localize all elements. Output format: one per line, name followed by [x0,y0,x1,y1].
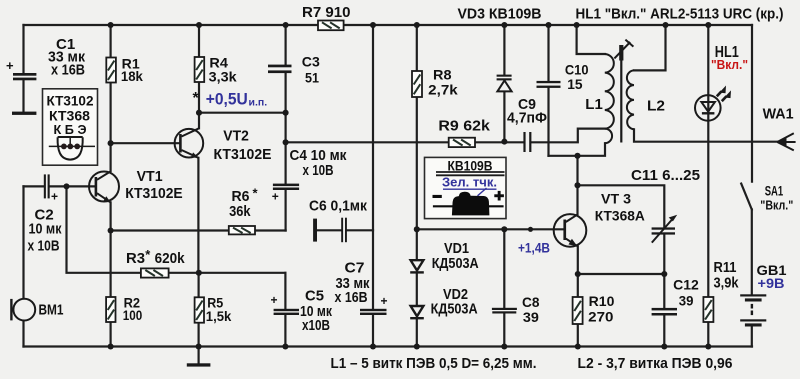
node VT2 base riser [108,140,114,146]
label R4 value [209,55,237,85]
svg-text:VT 3: VT 3 [601,191,631,207]
wire bottom rail [24,345,753,347]
svg-text:L1 – 5 витк ПЭВ 0,5 D= 6,25 м: L1 – 5 витк ПЭВ 0,5 D= 6,25 мм. [331,355,537,372]
wire C5 branch [284,273,286,347]
resistor R6 [229,226,255,234]
wire VT1 emitter / R2 riser [109,202,111,346]
core of transformer [620,48,622,143]
label pinout box text [47,93,94,138]
svg-text:1,5k: 1,5k [206,308,232,324]
trimmer capacitor C11 [652,215,678,243]
svg-text:R3: R3 [126,251,145,267]
wire C3 C4 chain [285,25,287,231]
transistor VT3 [554,214,587,247]
label VT2 name [214,128,272,163]
svg-text:C3: C3 [302,54,320,70]
svg-text:х 16В: х 16В [335,289,368,306]
svg-text:39: 39 [679,292,694,308]
svg-text:C5: C5 [305,288,324,305]
label R1 value [121,56,143,85]
capacitor C3 [268,65,292,74]
label C10 value [565,62,589,93]
label KV109V box caption [442,159,497,190]
svg-text:VT1: VT1 [137,169,163,185]
svg-text:*: * [253,186,259,201]
battery GB1 [740,294,766,326]
node top rail junctions [108,22,114,28]
ground mid [187,363,211,366]
svg-text:36k: 36k [229,204,251,220]
svg-text:+: + [381,294,388,308]
wire R5 riser [198,273,200,347]
label R2 value [123,294,143,323]
node VT3 emitter [575,271,581,277]
wire VT3 collector riser [576,156,578,215]
resistor R4 [195,57,205,82]
svg-text:+: + [51,190,58,204]
svg-text:4,7пФ: 4,7пФ [507,110,547,127]
svg-text:х10В: х10В [302,317,330,334]
label R5 value [206,295,232,325]
svg-text:*: * [145,247,151,262]
svg-text:КТ3102Е: КТ3102Е [214,147,272,163]
capacitor C9 [523,132,531,152]
pinout box KT3102 KT368 [43,89,98,165]
label GB1 name [757,262,787,291]
diode VD2 [410,306,424,319]
svg-text:КТ368: КТ368 [49,108,90,124]
svg-text:*: * [193,90,200,107]
wire SA1 GB1 branch [751,25,753,347]
svg-text:х 10В: х 10В [28,238,60,255]
wire VT2 base [111,142,180,144]
wire VD3 branch [503,25,505,142]
svg-text:L1: L1 [585,96,603,113]
label HL1 name [711,44,748,72]
label C3 value [302,54,320,86]
svg-text:+: + [6,58,14,73]
node R6 left [108,227,114,233]
info box KV109V [425,157,507,218]
node bottom rail junctions [108,343,114,349]
svg-text:КТ3102Е: КТ3102Е [125,186,183,202]
svg-text:C6 0,1мк: C6 0,1мк [309,198,367,215]
resistor R2 [106,297,115,322]
node base wire mark [528,227,533,232]
label R3 value [126,247,185,267]
label C9 value [507,96,547,127]
svg-text:3,9k: 3,9k [714,275,740,292]
svg-text:R11: R11 [714,259,737,276]
resistor R3 [141,268,169,277]
antenna WA1 [777,133,796,150]
node C11 top [574,182,580,188]
svg-text:R6: R6 [232,189,250,205]
wire R4 / VT2 collector riser [198,25,200,128]
node VT3 collector top [574,153,580,159]
svg-text:620k: 620k [155,251,186,267]
svg-text:КТ3102: КТ3102 [47,93,94,109]
label SA1 name [760,184,793,213]
svg-text:R7 910: R7 910 [302,5,351,21]
svg-text:C11 6...25: C11 6...25 [631,167,700,184]
capacitor C12 [652,308,677,316]
svg-text:C10: C10 [565,62,589,78]
wire C8 branch [503,229,505,346]
core adjust arrow [614,40,633,59]
svg-text:ВМ1: ВМ1 [39,302,64,319]
svg-text:51: 51 [305,69,319,85]
node VD1 top [414,226,420,232]
label C1 value [6,36,85,79]
wire L2 top feed [634,25,666,70]
wire BM1 branch [22,186,24,346]
label R11 value [714,259,740,292]
svg-text:х 16В: х 16В [51,62,85,79]
diode VD1 [410,260,424,273]
svg-text:+: + [271,293,278,307]
label VT3 name [595,191,645,224]
node VD3 bottom [501,139,507,145]
varicap VD3 [497,75,512,92]
svg-text:"Вкл.": "Вкл." [760,198,793,212]
resistor R9 [449,138,475,147]
wire R10 riser [577,274,579,347]
svg-text:100: 100 [123,307,143,323]
transistor VT1 [89,171,119,202]
wire top supply rail [24,24,753,26]
label C4 value [272,147,347,203]
svg-text:х 10В: х 10В [303,162,334,179]
svg-text:SA1: SA1 [765,184,784,199]
wire C1 branch [22,25,24,112]
svg-text:18k: 18k [121,68,143,84]
node C8 top [501,226,507,232]
svg-text:270: 270 [588,309,614,325]
svg-text:Зел. тчк.: Зел. тчк. [442,175,497,190]
svg-text:VD3 КВ109В: VD3 КВ109В [458,6,542,23]
svg-text:+1,4В: +1,4В [518,239,550,255]
resistor R5 [195,297,204,322]
wire VT3 base net [417,228,564,230]
svg-text:К Б Э: К Б Э [54,123,87,137]
node +0,5U [196,110,202,116]
node VT1 base [63,183,69,189]
resistor R11 [703,297,713,322]
capacitor C8 [492,308,517,314]
microphone BM1 [10,299,35,321]
svg-text:R9 62k: R9 62k [438,119,491,135]
svg-text:L2 - 3,7 витка ПЭВ 0,96: L2 - 3,7 витка ПЭВ 0,96 [578,355,733,372]
label R8 value [428,67,458,98]
wire R3 feedback net [67,186,286,272]
label +0,5U node [193,90,268,109]
svg-text:и.п.: и.п. [249,97,268,109]
svg-text:L2: L2 [647,98,665,115]
label VD1 name [432,240,479,272]
resistor R8 [412,71,422,97]
wire L1 top feed [577,25,605,54]
inductor L1 [605,54,614,143]
wire HL1 R11 branch [707,25,709,347]
capacitor C4 [273,184,299,190]
svg-text:HL1 "Вкл." ARL2-5113 URC (кр.: HL1 "Вкл." ARL2-5113 URC (кр.) [576,6,784,23]
wire C2 to VT1 base [24,185,95,187]
node R3 right / C5 [196,270,202,276]
resistor R7 [318,21,344,31]
svg-text:WA1: WA1 [763,105,794,122]
label VD2 name [431,286,478,318]
svg-text:39: 39 [523,309,539,325]
label R10 value [588,293,614,325]
wire C6 leads [317,229,373,231]
wire +0,5U node to C3 chain [199,112,286,114]
label C2 value [28,190,62,255]
svg-text:VT2: VT2 [223,128,249,144]
label C5 value [271,288,333,335]
capacitor C2 [44,174,50,198]
inductor L2 [627,70,634,129]
label C8 value [522,294,540,325]
capacitor C1 [13,73,36,80]
wire C6 C7 branch [372,25,374,347]
capacitor C7 [360,309,387,315]
transistor VT2 [175,128,204,158]
svg-text:+0,5U: +0,5U [206,90,248,109]
node C3/C4 to R9 [283,139,289,145]
svg-text:C12: C12 [673,276,699,292]
svg-text:"Вкл.": "Вкл." [711,57,748,72]
svg-text:2,7k: 2,7k [428,82,458,98]
capacitor C6 [313,218,347,243]
label C7 value [335,260,388,309]
wire R1 / VT1 collector riser [109,25,111,171]
node C11 bottom [661,271,667,277]
ground C1 [12,112,36,115]
label R6 value [229,186,258,221]
svg-text:КВ109В: КВ109В [448,159,493,174]
svg-text:15: 15 [567,76,583,92]
capacitor C10 [537,81,561,88]
wire VT2 emitter riser [197,158,199,273]
wire C11 branch [578,185,665,274]
resistor R1 [106,58,116,83]
svg-text:КД503А: КД503А [432,255,479,272]
LED HL1 [695,86,731,121]
wire C10 branch [547,25,549,156]
svg-text:3,3k: 3,3k [209,69,237,85]
resistor R10 [573,297,583,324]
capacitor C5 [274,309,299,315]
wire ground stub mid [198,347,200,364]
svg-text:C8: C8 [522,294,540,310]
wire L2 bottom to antenna WA1 [634,129,778,141]
wire VT3 emitter net [578,247,665,274]
svg-text:КТ368А: КТ368А [595,208,645,224]
label C12 value [673,276,699,308]
switch SA1 lever [741,184,752,210]
svg-text:КД503А: КД503А [431,301,478,318]
wire L1 bottom to VT3 collector [549,143,606,156]
svg-text:+: + [272,189,279,203]
label VT1 name [125,169,183,202]
svg-text:+9В: +9В [758,275,785,291]
wire R6 net [111,229,286,231]
svg-text:R8: R8 [433,67,452,83]
svg-text:C7: C7 [345,260,365,277]
svg-text:R10: R10 [589,293,615,309]
svg-text:10 мк: 10 мк [29,221,62,238]
wire R9 varicap bias [286,129,605,143]
wire R8 VD1 VD2 branch [416,25,418,347]
wire C12 branch [663,274,665,347]
